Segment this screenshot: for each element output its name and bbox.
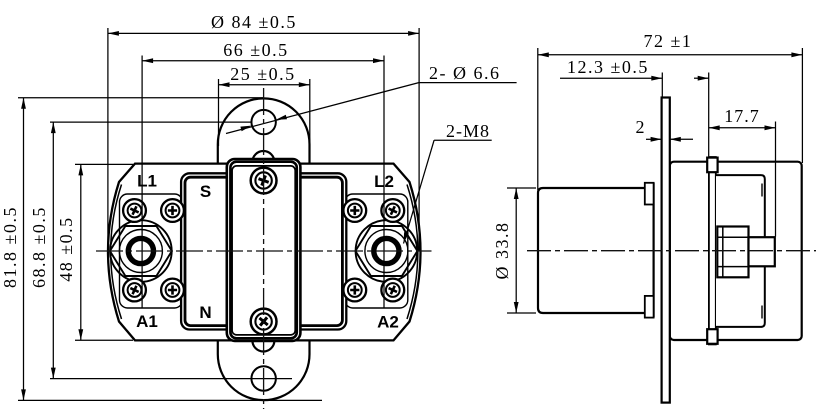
front view horizontal centerline [96,250,432,252]
side view bracket bottom cap [707,329,717,344]
front view vertical centerline [263,88,265,409]
L2 screw area rounded rect [345,194,408,308]
L1 terminal hex nut [110,226,172,276]
top mounting ear [218,98,310,163]
screw L1 top-left [123,199,146,222]
bottom ear hole [251,366,275,390]
dimension 2 [636,117,694,142]
side view terminal nut [717,227,748,278]
svg-text:48 ±0.5: 48 ±0.5 [56,216,76,281]
L1 terminal inner circle [119,230,162,273]
side view horizontal centerline [527,250,816,252]
label L1 [137,172,157,191]
side view bracket top cap [707,158,717,173]
L1 terminal post ring [128,238,153,263]
screw L1 bottom-left [123,279,146,302]
leader 2-Ø6.6 [226,63,517,134]
side view left cylinder [538,183,654,318]
dimension 72 [538,31,803,190]
svg-text:17.7: 17.7 [724,106,760,126]
label N [199,303,211,322]
screw L2 bottom-left [343,279,366,302]
dimension 25 [219,64,310,146]
svg-text:A1: A1 [136,312,158,331]
dimension 12.3 [560,57,709,156]
screw L1 bottom-right [161,279,184,302]
center boss middle [230,162,296,339]
svg-text:Ø 84 ±0.5: Ø 84 ±0.5 [211,12,297,32]
svg-text:81.8 ±0.5: 81.8 ±0.5 [0,206,20,288]
bottom mounting ear [218,340,310,400]
screw L2 top-left [343,199,366,222]
svg-text:25 ±0.5: 25 ±0.5 [230,64,295,84]
dimension 17.7 [709,106,776,237]
L1 screw area rounded rect [120,194,183,308]
leader 2-M8 [404,121,492,244]
side view cylinder bottom tab [645,296,654,318]
top ear hole [251,110,275,134]
svg-text:12.3 ±0.5: 12.3 ±0.5 [567,57,649,77]
svg-text:2: 2 [636,117,645,137]
side view housing body [670,162,802,340]
svg-text:68.8 ±0.5: 68.8 ±0.5 [29,206,49,288]
dimension Ø33.8 [492,188,536,313]
center plate inner [185,177,342,325]
screw L1 top-right [161,199,184,222]
svg-text:A2: A2 [377,313,399,332]
screw L2 bottom-right [381,279,404,302]
flange inner rim arc right [407,185,418,320]
center plate outer [181,173,346,329]
side view bracket bar [709,157,716,344]
dimension 48 [56,164,133,340]
svg-text:72 ±1: 72 ±1 [644,31,693,51]
screw L2 top-right [381,199,404,222]
svg-text:2- Ø 6.6: 2- Ø 6.6 [429,63,501,83]
side view cylinder top tab [645,183,654,205]
side view plate silhouette [716,175,765,327]
center boss outer [227,159,301,341]
label A1 [136,312,158,331]
L2 terminal inner circle [365,230,408,273]
boss screw bottom [251,309,277,335]
svg-text:2-M8: 2-M8 [446,121,490,141]
flange inner rim arc left [111,185,122,320]
front view flange outline [108,164,421,341]
dimension Ø84 [108,12,419,251]
L1 terminal circle [110,220,172,282]
boss screw top [251,168,277,194]
center boss inner [232,166,295,335]
svg-text:66 ±0.5: 66 ±0.5 [223,40,288,60]
bottom locating bump [252,330,274,352]
dimension 66 [142,40,384,308]
svg-text:S: S [200,182,211,201]
L2 terminal circle [356,220,418,282]
dimension 68.8 [29,122,292,379]
dimension 81.8 [0,98,322,401]
L2 terminal post ring [374,238,399,263]
L2 terminal hex nut [355,226,417,276]
svg-text:L1: L1 [137,172,157,191]
svg-text:Ø 33.8: Ø 33.8 [492,222,512,280]
top locating bump [252,151,274,173]
label A2 [377,313,399,332]
label S [200,182,211,201]
side view terminal stud [749,237,775,266]
side view mounting flange plate [662,98,670,403]
svg-text:N: N [199,303,211,322]
label L2 [374,172,394,191]
